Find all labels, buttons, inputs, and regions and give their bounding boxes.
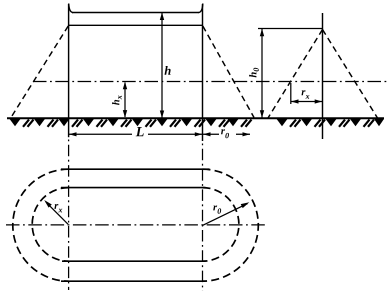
- guy wire left dashed: [11, 26, 68, 118]
- plan: radius r0 leader: [203, 204, 248, 226]
- label hx (rotated): [112, 95, 122, 105]
- tick at rx crossing: [290, 83, 292, 104]
- dimension h line: [161, 13, 163, 118]
- arrow hx bottom: [123, 110, 127, 118]
- plan: inner zone right arc dashed: [203, 188, 239, 262]
- protection cone left dashed: [268, 30, 323, 119]
- plan: outer zone bottom line: [61, 280, 205, 282]
- label h: [165, 66, 171, 75]
- arrow h0 bottom: [260, 110, 264, 118]
- arrow L left: [69, 132, 77, 136]
- dimension hx line: [124, 83, 126, 118]
- ground hatching: [10, 119, 34, 127]
- centerline hx level (dash-dot): [33, 81, 389, 83]
- plan: outer zone top line: [61, 168, 210, 170]
- arrow plan r0: [241, 202, 250, 208]
- arrow h top: [160, 13, 164, 21]
- dimension r0 line: [203, 133, 251, 135]
- label r0 (plan): [213, 205, 221, 213]
- mast right (tower 2): [202, 4, 204, 118]
- arrow r0 right: [243, 132, 251, 136]
- plan: inner zone top line: [61, 187, 206, 189]
- plan: outer zone left arc dashed: [13, 169, 69, 281]
- arrow r0 left: [203, 132, 211, 136]
- guy wire right dashed: [203, 26, 254, 118]
- plan: radius rx leader: [46, 202, 68, 224]
- arrow hx top: [123, 82, 127, 90]
- wire: mast-top crossbar: [69, 24, 203, 26]
- arrow h0 top: [260, 29, 264, 37]
- label rx (plan): [54, 204, 62, 212]
- dimension rx line (right figure): [291, 101, 323, 103]
- arrow rx left (right figure): [291, 99, 299, 103]
- arrowheads: [44, 13, 322, 209]
- plan: inner zone bottom line: [62, 260, 206, 262]
- plan: centerline horizontal dash-dot: [6, 224, 265, 226]
- label h0 (rotated): [249, 68, 259, 78]
- protection cone right dashed: [323, 30, 378, 119]
- label rx (right figure): [302, 90, 310, 99]
- wire: left end curl: [69, 4, 73, 13]
- label L: [136, 127, 144, 136]
- arrow L right: [195, 132, 203, 136]
- dimension h0 line: [261, 29, 263, 118]
- wire: antenna top wire: [72, 12, 199, 14]
- wire: right end curl: [199, 4, 203, 13]
- ground line: [7, 117, 384, 119]
- axis below left mast (dash-dot): [68, 118, 70, 137]
- mast left (tower 1): [68, 4, 70, 118]
- dimension L line: [69, 133, 203, 135]
- arrow plan rx: [44, 200, 52, 208]
- arrow rx right (right figure): [315, 99, 323, 103]
- arrow h bottom: [160, 111, 164, 119]
- extension line at cone apex: [258, 28, 323, 30]
- plan: outer zone right arc dashed: [203, 169, 259, 281]
- axis below right mast (dash-dot): [202, 118, 204, 141]
- mast single (right figure): [322, 13, 324, 139]
- plan: inner zone left arc dashed: [32, 188, 68, 262]
- label r0 (section): [221, 129, 229, 138]
